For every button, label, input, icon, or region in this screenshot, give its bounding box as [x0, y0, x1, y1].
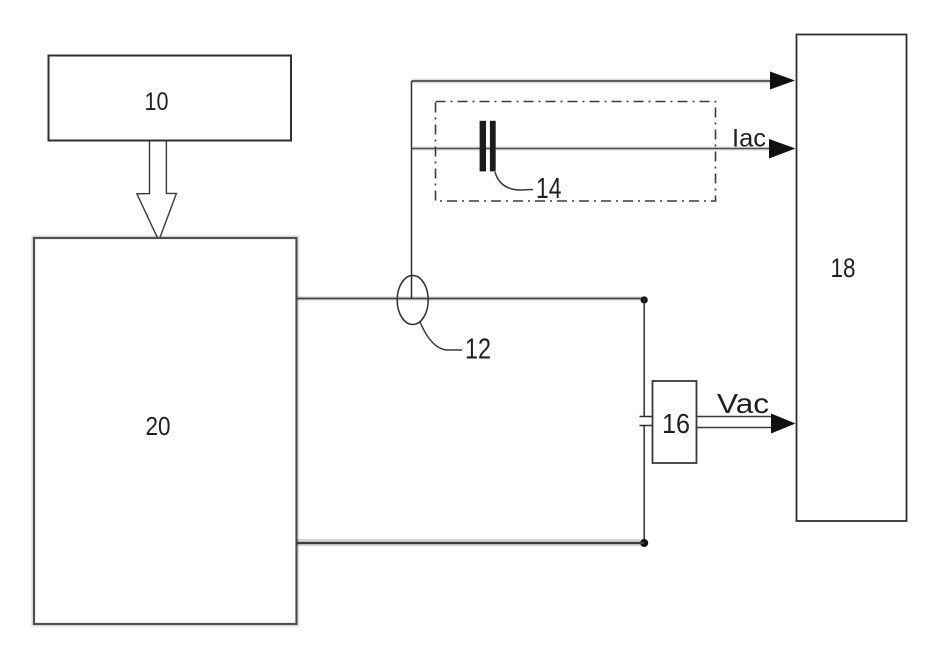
svg-text:Vac: Vac: [717, 388, 769, 419]
svg-text:10: 10: [145, 88, 169, 116]
wire: vertical riser from sensor 12 up to top wire: [411, 81, 413, 299]
arrowhead into block 18 (Iac wire): [769, 139, 796, 159]
block 20: [34, 238, 297, 624]
arrowhead into block 18 (top wire): [770, 72, 795, 90]
svg-text:18: 18: [831, 253, 856, 283]
wire: capacitor branch horizontal: [412, 146, 773, 151]
junction node at top of riser to 16: [641, 296, 648, 303]
leader line to label 14: [495, 172, 533, 190]
arrowhead into block 18 (Vac): [771, 414, 796, 434]
current sensor ellipse 12: [397, 276, 428, 325]
svg-text:16: 16: [662, 408, 690, 439]
svg-text:14: 14: [536, 173, 562, 205]
stub into block 16 (lower): [640, 425, 653, 427]
capacitor 14 plates: [480, 121, 496, 172]
svg-text:12: 12: [465, 334, 491, 366]
Vac wire pair from block 16 to block 18: [697, 417, 773, 428]
block 18: [797, 35, 907, 522]
block 10: [49, 56, 292, 141]
hollow arrow from 10 to 20: [137, 142, 177, 241]
wire: vertical down to block 16 upper stub: [643, 299, 645, 417]
wire: main horizontal from block 20 through sensor to node: [297, 296, 645, 301]
dash-dot enclosure around capacitor 14: [436, 102, 716, 202]
svg-text:Iac: Iac: [732, 125, 766, 153]
wire: top horizontal from node above sensor to block 18: [412, 79, 773, 84]
svg-text:20: 20: [146, 411, 171, 441]
stub into block 16 (upper): [640, 416, 653, 418]
leader line to label 12: [420, 322, 462, 350]
block 16: [653, 381, 697, 463]
wire: vertical from block 16 lower stub down to bottom wire: [643, 426, 645, 544]
junction node at bottom wire: [640, 539, 648, 547]
wire: bottom horizontal back to block 20: [297, 539, 645, 546]
